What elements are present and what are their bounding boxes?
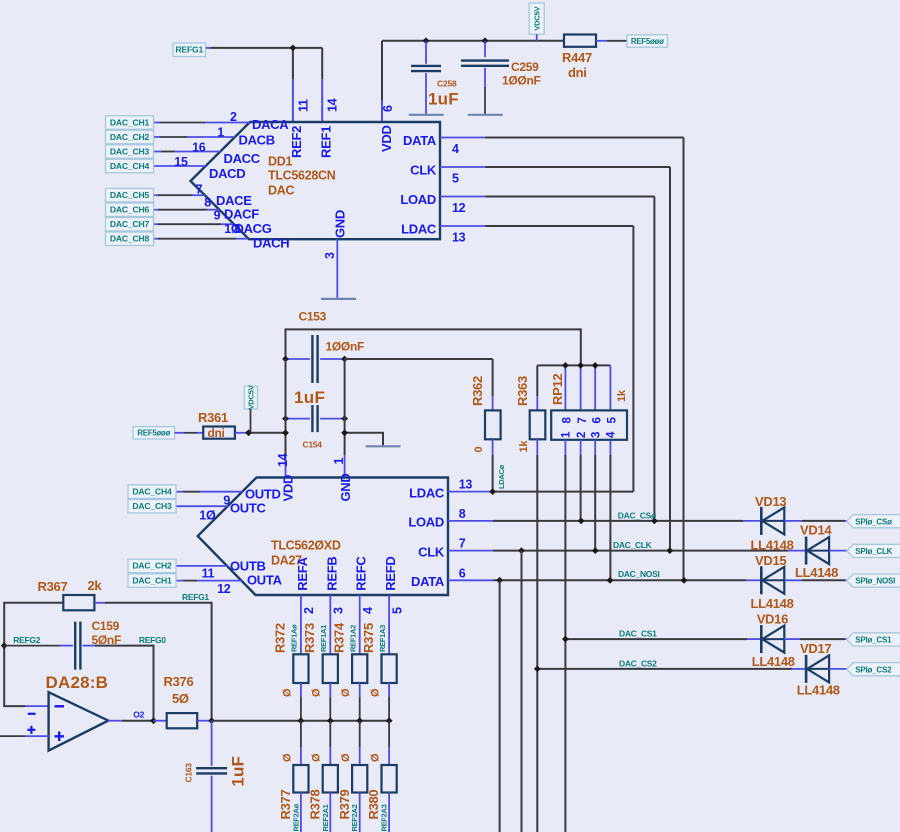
svg-text:6: 6 [381, 105, 395, 112]
svg-text:DAC_CH3: DAC_CH3 [132, 501, 172, 511]
pin LOAD (12) of DD1 with route wire [440, 196, 486, 198]
flag label SPI0_CS0 [847, 515, 900, 528]
svg-text:VD16: VD16 [757, 612, 788, 627]
svg-text:DAC_CH3: DAC_CH3 [110, 146, 150, 156]
resistor R379 0 [352, 765, 367, 793]
svg-text:1uF: 1uF [294, 388, 325, 407]
svg-text:R374: R374 [332, 622, 347, 653]
net label DAC_CH8 [106, 232, 154, 246]
svg-text:LL4148: LL4148 [751, 596, 794, 611]
wire R374 bottom to O2 row [359, 683, 361, 697]
flag label SPI0_NOSI [847, 574, 900, 587]
svg-text:7: 7 [577, 417, 589, 423]
svg-text:4: 4 [606, 431, 618, 438]
resistor R363 1k [536, 365, 538, 396]
svg-text:VD15: VD15 [755, 553, 786, 568]
svg-text:REF1A3: REF1A3 [378, 625, 387, 652]
svg-text:5: 5 [452, 171, 459, 185]
wire DAC_CH5 to pin DACE [154, 194, 159, 196]
svg-text:8: 8 [562, 417, 574, 424]
wire DAC_CH1 to pin OUTA [176, 580, 183, 582]
ground symbol below DD1 [321, 298, 356, 300]
svg-text:R373: R373 [302, 623, 317, 653]
svg-text:REF2: REF2 [289, 126, 304, 158]
wire R375 bottom to O2 row [388, 683, 390, 697]
svg-text:DAC_CLK: DAC_CLK [613, 540, 653, 550]
wire R379 bottom exit [359, 793, 361, 832]
net label DAC_CH1 [128, 574, 176, 588]
wire GND branch with ground T [345, 433, 383, 447]
svg-text:REFG1: REFG1 [175, 45, 203, 55]
svg-text:C258: C258 [437, 79, 457, 89]
svg-text:REF5øøø: REF5øøø [631, 37, 664, 46]
svg-text:DAC_CH7: DAC_CH7 [110, 219, 150, 229]
net label DAC_CH2 [106, 130, 154, 144]
svg-text:Ø: Ø [340, 753, 352, 762]
svg-text:VDD: VDD [379, 125, 394, 152]
svg-text:C153: C153 [299, 310, 327, 324]
wire O2 row to R380 [388, 721, 390, 747]
svg-text:4: 4 [452, 142, 459, 156]
junction feedback/REFG2 [1, 642, 8, 649]
op-amp DA28:B [49, 692, 109, 750]
svg-text:DAC: DAC [268, 184, 294, 198]
svg-text:1k: 1k [518, 440, 530, 453]
svg-text:SPIø_CS1: SPIø_CS1 [855, 636, 892, 645]
diode VD13 LL4148 [760, 507, 763, 535]
svg-text:REF1A2: REF1A2 [349, 625, 358, 652]
resistor R374 0 [352, 654, 367, 683]
pin CLK (7) of DA27 [448, 550, 493, 552]
capacitor C259 100nF [484, 41, 486, 57]
resistor R367 2k [63, 595, 94, 610]
svg-text:6: 6 [459, 566, 466, 580]
wire DAC_CH8 to pin DACH [154, 238, 159, 240]
power label VDC5V middle [244, 386, 257, 409]
svg-text:8: 8 [204, 195, 211, 209]
resistor R376 50 [167, 713, 198, 728]
svg-text:R372: R372 [273, 623, 288, 653]
net label DAC_CH4 [106, 159, 154, 173]
svg-text:6: 6 [591, 417, 603, 423]
svg-text:DAC_CS2: DAC_CS2 [619, 658, 657, 668]
svg-text:2: 2 [230, 110, 237, 124]
RP12 pin1 wire down to DAC_CS1 and beyond [564, 440, 566, 455]
op IC DA27 TLC5620XD body [198, 478, 448, 596]
junction REFG1/REF2 [290, 45, 297, 52]
svg-text:0: 0 [473, 447, 485, 453]
svg-text:OUTB: OUTB [230, 559, 266, 574]
svg-text:DAC_CH2: DAC_CH2 [110, 132, 150, 142]
RP12 pin4 wire to DAC_NOSI [609, 440, 611, 455]
wire vertical route x=683.5 [683, 138, 685, 581]
svg-text:1Ø: 1Ø [199, 509, 216, 523]
svg-text:DATA: DATA [411, 574, 445, 589]
wire R377 bottom exit [300, 793, 302, 832]
op-amp minus input marker [55, 705, 65, 707]
capacitor C154 1uF [286, 418, 310, 420]
svg-text:DAC_CH1: DAC_CH1 [132, 575, 172, 585]
svg-text:Ø: Ø [370, 688, 382, 697]
svg-text:LOAD: LOAD [400, 192, 436, 207]
svg-text:13: 13 [459, 478, 473, 492]
wire O2 row to R378 [329, 721, 331, 747]
svg-text:2: 2 [302, 607, 316, 614]
wire O2 row to R379 [359, 721, 361, 747]
svg-text:SPIø_CLK: SPIø_CLK [855, 547, 892, 556]
wire DAC_CH2 to pin OUTB [176, 565, 228, 567]
svg-text:DACB: DACB [239, 133, 275, 148]
wire DAC_CH6 to pin DACF [154, 209, 159, 211]
wire REF2 pin stub vertical [292, 48, 294, 80]
svg-text:1: 1 [561, 431, 573, 438]
wire O2 row to R372-R375 bottoms [212, 720, 390, 722]
pin DATA (6) of DA27 [448, 579, 493, 581]
op IC DD1 TLC5628CN body [191, 122, 441, 239]
svg-text:DAC_CH1: DAC_CH1 [110, 117, 150, 127]
outside plus marker [27, 729, 35, 731]
ground symbol right of C154 [366, 445, 401, 447]
net label REF5000 middle [133, 427, 175, 439]
svg-text:LL4148: LL4148 [795, 565, 838, 580]
svg-text:11: 11 [297, 99, 311, 112]
wire DAC_CS2 row [537, 668, 792, 670]
svg-text:1Ø: 1Ø [224, 222, 241, 236]
svg-text:14: 14 [326, 98, 340, 112]
wire VDC5V middle drop [250, 409, 252, 433]
pin CLK (5) of DD1 with route wire [440, 166, 486, 168]
wire REF1 pin stub vertical [321, 48, 323, 80]
svg-text:5ØnF: 5ØnF [92, 633, 121, 647]
wire GND pin 3 of DD1 to ground [336, 239, 338, 299]
svg-text:REF2A2: REF2A2 [350, 804, 359, 831]
wire DAC_CS1 row [565, 638, 747, 640]
svg-text:2: 2 [576, 432, 588, 438]
svg-text:GND: GND [333, 210, 348, 238]
RP12 pin2 wire to DAC_CS0 [580, 440, 582, 455]
net label DAC_CH6 [106, 203, 154, 217]
svg-text:DAC_CH4: DAC_CH4 [110, 161, 150, 171]
outside minus marker [28, 713, 36, 715]
svg-text:TLC562ØXD: TLC562ØXD [271, 539, 341, 553]
svg-text:1uF: 1uF [428, 90, 459, 109]
diode VD17 LL4148 [805, 655, 808, 683]
vertical net wire x=285.5 (VDD of DA27) [285, 359, 287, 455]
svg-text:7: 7 [196, 182, 203, 196]
pin LOAD (8) of DA27 [448, 520, 493, 522]
svg-text:REFA: REFA [295, 556, 310, 590]
wire REFA pin stub down [300, 595, 302, 654]
svg-text:REFC: REFC [354, 556, 369, 591]
svg-text:DAC_CH8: DAC_CH8 [110, 234, 150, 244]
resistor R375 0 [382, 654, 397, 683]
wire REFG2 row with C159 [4, 645, 60, 647]
svg-text:14: 14 [276, 453, 290, 467]
wire REFC pin stub down [359, 595, 361, 654]
svg-text:R367: R367 [38, 579, 68, 594]
svg-text:REFG2: REFG2 [13, 635, 40, 645]
svg-text:8: 8 [459, 507, 466, 521]
wire O2 row to R377 [300, 721, 302, 747]
svg-text:DAC_CSø: DAC_CSø [618, 511, 657, 521]
svg-text:1: 1 [332, 458, 346, 465]
wire DAC_CH3 to pin OUTC [176, 505, 228, 507]
svg-text:3: 3 [332, 607, 346, 614]
svg-text:DAC_CS1: DAC_CS1 [619, 629, 657, 639]
svg-text:SPIø_CS2: SPIø_CS2 [855, 665, 892, 674]
svg-text:REFB: REFB [324, 556, 339, 590]
svg-text:LOAD: LOAD [408, 515, 444, 530]
svg-text:9: 9 [214, 209, 221, 223]
RP12 pin3 wire to DAC_CLK [594, 440, 596, 455]
svg-text:1k: 1k [616, 389, 628, 402]
svg-text:C154: C154 [303, 440, 323, 450]
svg-text:R447: R447 [562, 50, 592, 65]
net label REFG1 [173, 43, 206, 57]
pin LDAC (13) of DD1 with route wire [440, 225, 486, 227]
svg-text:1ØØnF: 1ØØnF [502, 74, 541, 88]
svg-text:DAC_CH6: DAC_CH6 [110, 205, 150, 215]
wire DAC_CH7 to pin DACG [154, 223, 159, 225]
flag label SPI0_CS1 [847, 633, 900, 646]
capacitor C153 100nF [286, 358, 310, 360]
net label DAC_CH5 [106, 188, 154, 202]
svg-text:DAC_CH4: DAC_CH4 [132, 487, 172, 497]
svg-text:Ø: Ø [281, 753, 293, 762]
wire REFG1 net from label to DD1 REF2/REF1 pins [206, 47, 211, 49]
svg-text:3: 3 [323, 252, 337, 259]
svg-text:DAC_CH2: DAC_CH2 [132, 561, 172, 571]
svg-text:5: 5 [607, 417, 619, 424]
svg-text:12: 12 [452, 201, 466, 215]
svg-text:DAC_NOSI: DAC_NOSI [618, 569, 660, 579]
wire op-amp output O2 row [108, 720, 122, 722]
svg-text:R363: R363 [515, 376, 530, 406]
svg-text:LL4148: LL4148 [797, 683, 840, 698]
diode VD15 LL4148 [760, 566, 763, 594]
net label DAC_CH1 [106, 116, 154, 130]
svg-text:C163: C163 [184, 763, 194, 783]
svg-text:Ø: Ø [370, 753, 382, 762]
svg-text:16: 16 [192, 140, 206, 154]
wire REFB pin stub down [329, 595, 331, 654]
svg-text:R376: R376 [164, 674, 194, 689]
resistor R380 0 [382, 765, 397, 793]
svg-text:TLC5628CN: TLC5628CN [268, 169, 336, 183]
svg-text:1: 1 [217, 126, 224, 140]
wire VDD riser of DD1 [381, 41, 383, 100]
wire R372 bottom to O2 row [300, 683, 302, 697]
net label DAC_CH2 [128, 559, 176, 573]
svg-text:dni: dni [208, 426, 225, 440]
wire REFD pin stub down [388, 595, 390, 654]
wire vertical route x=633.4 [632, 226, 634, 492]
net label DAC_CH3 [106, 145, 154, 159]
svg-text:13: 13 [452, 230, 466, 244]
svg-text:VD14: VD14 [800, 523, 832, 538]
svg-text:DACA: DACA [252, 117, 289, 132]
net label DAC_CH4 [128, 485, 176, 499]
resistor R372 0 [293, 654, 308, 683]
resistor R378 0 [323, 765, 338, 793]
wire vertical route x=670.0 [669, 167, 671, 551]
svg-text:REFG1: REFG1 [182, 592, 209, 602]
wire R380 bottom exit [388, 793, 390, 832]
svg-text:7: 7 [459, 537, 466, 551]
wire DAC_CH4 to pin OUTD [176, 491, 183, 493]
svg-text:REF1A1: REF1A1 [319, 625, 328, 652]
wire LDAC row to DD1 [493, 491, 633, 493]
resistor R373 0 [323, 654, 338, 683]
power rail VDC5V horizontal wire [382, 40, 564, 42]
wire R378 bottom exit [329, 793, 331, 832]
diode VD14 LL4148 [805, 537, 808, 565]
net label DAC_CH3 [128, 499, 176, 513]
pin DATA (4) of DD1 with route wire [440, 137, 486, 139]
svg-text:LL4148: LL4148 [752, 654, 795, 669]
svg-text:LL4148: LL4148 [751, 538, 794, 553]
svg-text:VDD: VDD [281, 475, 296, 502]
wire DAC_NOSI row [493, 579, 746, 581]
net label REF5000 top [627, 35, 668, 47]
svg-text:LDAC: LDAC [409, 485, 445, 500]
svg-text:DA28:B: DA28:B [46, 673, 109, 692]
svg-text:OUTA: OUTA [247, 573, 283, 588]
svg-text:REF1: REF1 [319, 126, 334, 158]
wire R367 right to REFG1 net [94, 602, 105, 604]
svg-text:CLK: CLK [410, 163, 437, 178]
svg-text:11: 11 [202, 567, 215, 581]
svg-text:REF2Aø: REF2Aø [291, 803, 300, 831]
wire DAC_CH1 to pin DACA [154, 122, 161, 124]
wire R373 bottom to O2 row [329, 683, 331, 697]
svg-text:REF5øøø: REF5øøø [137, 429, 170, 438]
wire down from CLK row [521, 551, 523, 832]
resistor R362 0 [492, 359, 494, 396]
svg-text:REF1Aø: REF1Aø [290, 624, 299, 652]
svg-text:R362: R362 [470, 376, 485, 406]
junction rail C259 [482, 37, 489, 44]
svg-text:SPIø_CSø: SPIø_CSø [855, 517, 892, 526]
svg-text:OUTC: OUTC [230, 501, 267, 516]
wire REF5000 to R361 [175, 432, 185, 434]
svg-text:DACH: DACH [253, 236, 289, 251]
vertical wire x=344.6 (GND of DA27) [344, 359, 346, 433]
capacitor C163 1uF [211, 721, 213, 766]
wire DAC_CH2 to pin DACB [154, 136, 161, 138]
svg-text:4: 4 [361, 607, 375, 614]
svg-text:VDC5V: VDC5V [247, 385, 256, 409]
svg-text:DAC_CH5: DAC_CH5 [110, 190, 150, 200]
wire down from DATA row [499, 580, 501, 832]
svg-text:REFG0: REFG0 [139, 635, 166, 645]
svg-text:12: 12 [217, 582, 231, 596]
svg-text:LDAC: LDAC [401, 222, 437, 237]
svg-text:OUTD: OUTD [245, 487, 281, 502]
svg-text:REFD: REFD [383, 556, 398, 590]
svg-text:1ØØnF: 1ØØnF [326, 340, 365, 354]
wire DAC_CLK row [493, 550, 788, 552]
svg-text:REF2A1: REF2A1 [321, 804, 330, 831]
svg-text:R361: R361 [198, 410, 228, 425]
svg-text:Ø: Ø [311, 688, 323, 697]
svg-text:Ø: Ø [311, 753, 323, 762]
svg-text:dni: dni [568, 65, 587, 80]
wire plus input from edge [0, 735, 25, 737]
wire DAC_CS0 row [493, 520, 743, 522]
svg-text:Ø: Ø [340, 688, 352, 697]
svg-text:GND: GND [338, 474, 353, 502]
svg-text:DACD: DACD [209, 166, 245, 181]
svg-text:VDC5V: VDC5V [533, 6, 542, 30]
wire R367 left + feedback [4, 603, 63, 706]
op-amp plus input marker [55, 735, 65, 737]
resistor R377 0 [293, 765, 308, 793]
svg-text:C159: C159 [92, 619, 120, 633]
svg-text:LDACø: LDACø [497, 464, 506, 489]
svg-text:R375: R375 [361, 623, 376, 653]
svg-text:VD17: VD17 [800, 641, 831, 656]
wire DAC_CH4 to pin DACD [154, 165, 207, 167]
wire R361 to VDD net [235, 432, 249, 434]
svg-text:3: 3 [590, 432, 602, 438]
pin LDAC (13) of DA27 [448, 491, 493, 493]
svg-text:RP12: RP12 [550, 374, 565, 405]
svg-text:C259: C259 [511, 60, 539, 74]
capacitor C258 1uF [425, 41, 427, 64]
svg-text:15: 15 [174, 155, 188, 169]
wire vertical route x=654.4 [653, 197, 655, 521]
net label DAC_CH7 [106, 217, 154, 231]
svg-text:2k: 2k [88, 578, 103, 593]
capacitor C159 50nF [74, 622, 76, 670]
svg-text:5Ø: 5Ø [172, 691, 189, 706]
svg-text:CLK: CLK [418, 544, 445, 559]
svg-text:SPIø_NOSI: SPIø_NOSI [855, 577, 895, 586]
flag label SPI0_CS2 [847, 663, 900, 676]
resistor R361 dni [203, 427, 235, 439]
wire DAC_CH3 to pin DACC [154, 151, 162, 153]
svg-text:DACC: DACC [224, 151, 261, 166]
svg-text:DACF: DACF [224, 207, 259, 222]
svg-text:5: 5 [390, 607, 404, 614]
flag label SPI0_CLK [847, 544, 900, 557]
svg-text:REF2A3: REF2A3 [380, 804, 389, 831]
power label VDC5V top [529, 3, 544, 34]
wire C153 bypass top [286, 329, 581, 365]
svg-text:Ø: Ø [281, 688, 293, 697]
resistor R447 dni [564, 35, 596, 47]
svg-text:VD13: VD13 [755, 494, 786, 509]
wire C153 right to R362 top [345, 358, 493, 360]
svg-text:DATA: DATA [403, 133, 437, 148]
diode VD16 LL4148 [760, 625, 763, 653]
svg-text:O2: O2 [133, 710, 144, 720]
wire VDC5V drop [536, 34, 538, 41]
svg-text:1uF: 1uF [229, 756, 248, 787]
bus wire RP12 tops [537, 364, 610, 366]
resistor network RP12 1k [564, 365, 566, 410]
junction rail C258 [423, 37, 430, 44]
